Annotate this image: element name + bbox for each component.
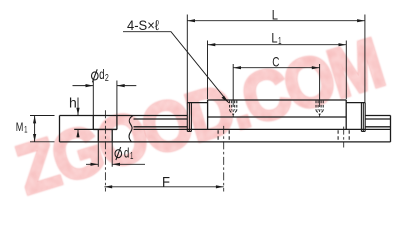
svg-text:L: L xyxy=(272,6,278,22)
svg-text:M: M xyxy=(16,120,24,134)
block/rail interface line xyxy=(208,116,347,118)
label phi d2 xyxy=(92,66,110,84)
dimension C line xyxy=(233,67,319,69)
block body left face xyxy=(207,100,209,130)
dimension M1 extension lines xyxy=(30,116,55,142)
tapped hole S x l (right) xyxy=(316,101,323,111)
dimension phi-d1 extension lines xyxy=(98,143,112,167)
arrow F left xyxy=(104,185,112,188)
dimension L1 extension lines xyxy=(208,41,347,100)
rail top edge right portion xyxy=(365,115,390,117)
tapped hole S x l (left) xyxy=(230,101,324,115)
centerline of left tapped hole xyxy=(232,99,234,117)
arrow h bottom xyxy=(76,129,79,137)
rail groove upper line xyxy=(134,118,391,120)
rail break squiggle xyxy=(129,116,133,142)
label phi d1 xyxy=(115,145,134,163)
left end cap top edge xyxy=(187,102,207,104)
svg-text:2: 2 xyxy=(105,73,109,84)
counterbore left wall xyxy=(92,116,94,130)
right end seal plates xyxy=(361,103,365,132)
dimension phi-d2 lines xyxy=(73,85,137,87)
arrow F right xyxy=(216,185,224,188)
arrow phi-d1 right xyxy=(112,163,120,166)
centerline of sectioned mounting hole xyxy=(105,99,343,192)
leader line 4-S x l xyxy=(123,32,229,103)
svg-text:1: 1 xyxy=(278,36,282,47)
watermark ZGOOD.COM xyxy=(8,25,390,210)
centerline of third mounting hole xyxy=(343,127,345,148)
dimension phi-d1 lines xyxy=(86,163,145,165)
hidden rail mounting hole under block (left) xyxy=(218,130,349,142)
rail chamfer / block skirt line xyxy=(74,128,390,130)
dimension h lines xyxy=(77,98,79,138)
svg-text:h: h xyxy=(69,95,77,111)
arrow phi-d1 left xyxy=(91,163,99,166)
rail left end face xyxy=(59,116,61,142)
arrow phi-d2 right xyxy=(117,84,125,87)
through hole left wall xyxy=(97,130,99,142)
rail right end face xyxy=(390,116,392,142)
svg-text:F: F xyxy=(162,173,170,189)
dimension L line xyxy=(187,20,365,22)
arrow leader tip xyxy=(222,96,229,103)
dimension M1 line xyxy=(34,116,36,142)
svg-text:1: 1 xyxy=(24,124,27,134)
through hole right wall xyxy=(111,130,113,142)
svg-text:d: d xyxy=(99,66,105,82)
left end seal plates xyxy=(187,103,191,132)
arrow L right xyxy=(357,19,365,22)
dimension C extension lines xyxy=(233,64,319,99)
arrow M1 bottom xyxy=(33,134,36,142)
svg-text:L: L xyxy=(271,29,277,45)
right end cap top edge xyxy=(346,102,365,104)
svg-text:C: C xyxy=(272,53,279,69)
centerline of second mounting hole xyxy=(223,126,225,192)
arrow phi-d2 left xyxy=(86,84,94,87)
dimension phi-d2 extension lines xyxy=(93,81,117,116)
block body top edge xyxy=(208,99,347,101)
svg-text:1: 1 xyxy=(130,151,134,162)
block body right face xyxy=(345,100,347,130)
arrow M1 top xyxy=(33,116,36,124)
arrow C right xyxy=(312,66,320,69)
arrow L left xyxy=(187,19,195,22)
counterbore right wall xyxy=(116,116,118,130)
svg-text:d: d xyxy=(124,145,129,161)
arrow C left xyxy=(233,66,241,69)
hidden rail mounting hole under block (right) xyxy=(338,130,349,142)
rail bottom edge xyxy=(60,141,391,143)
dimension L1 line xyxy=(208,44,347,46)
rail top edge left portion xyxy=(60,115,188,117)
svg-text:4-S×ℓ: 4-S×ℓ xyxy=(127,17,159,33)
centerline of right tapped hole xyxy=(319,99,321,117)
dimension L extension lines xyxy=(187,15,365,103)
arrow L1 right xyxy=(339,43,347,46)
dimension F line xyxy=(104,186,223,188)
arrow L1 left xyxy=(208,43,216,46)
counterbore bottom xyxy=(93,129,117,131)
arrow h top xyxy=(76,108,79,116)
rail groove lower line xyxy=(134,126,391,128)
